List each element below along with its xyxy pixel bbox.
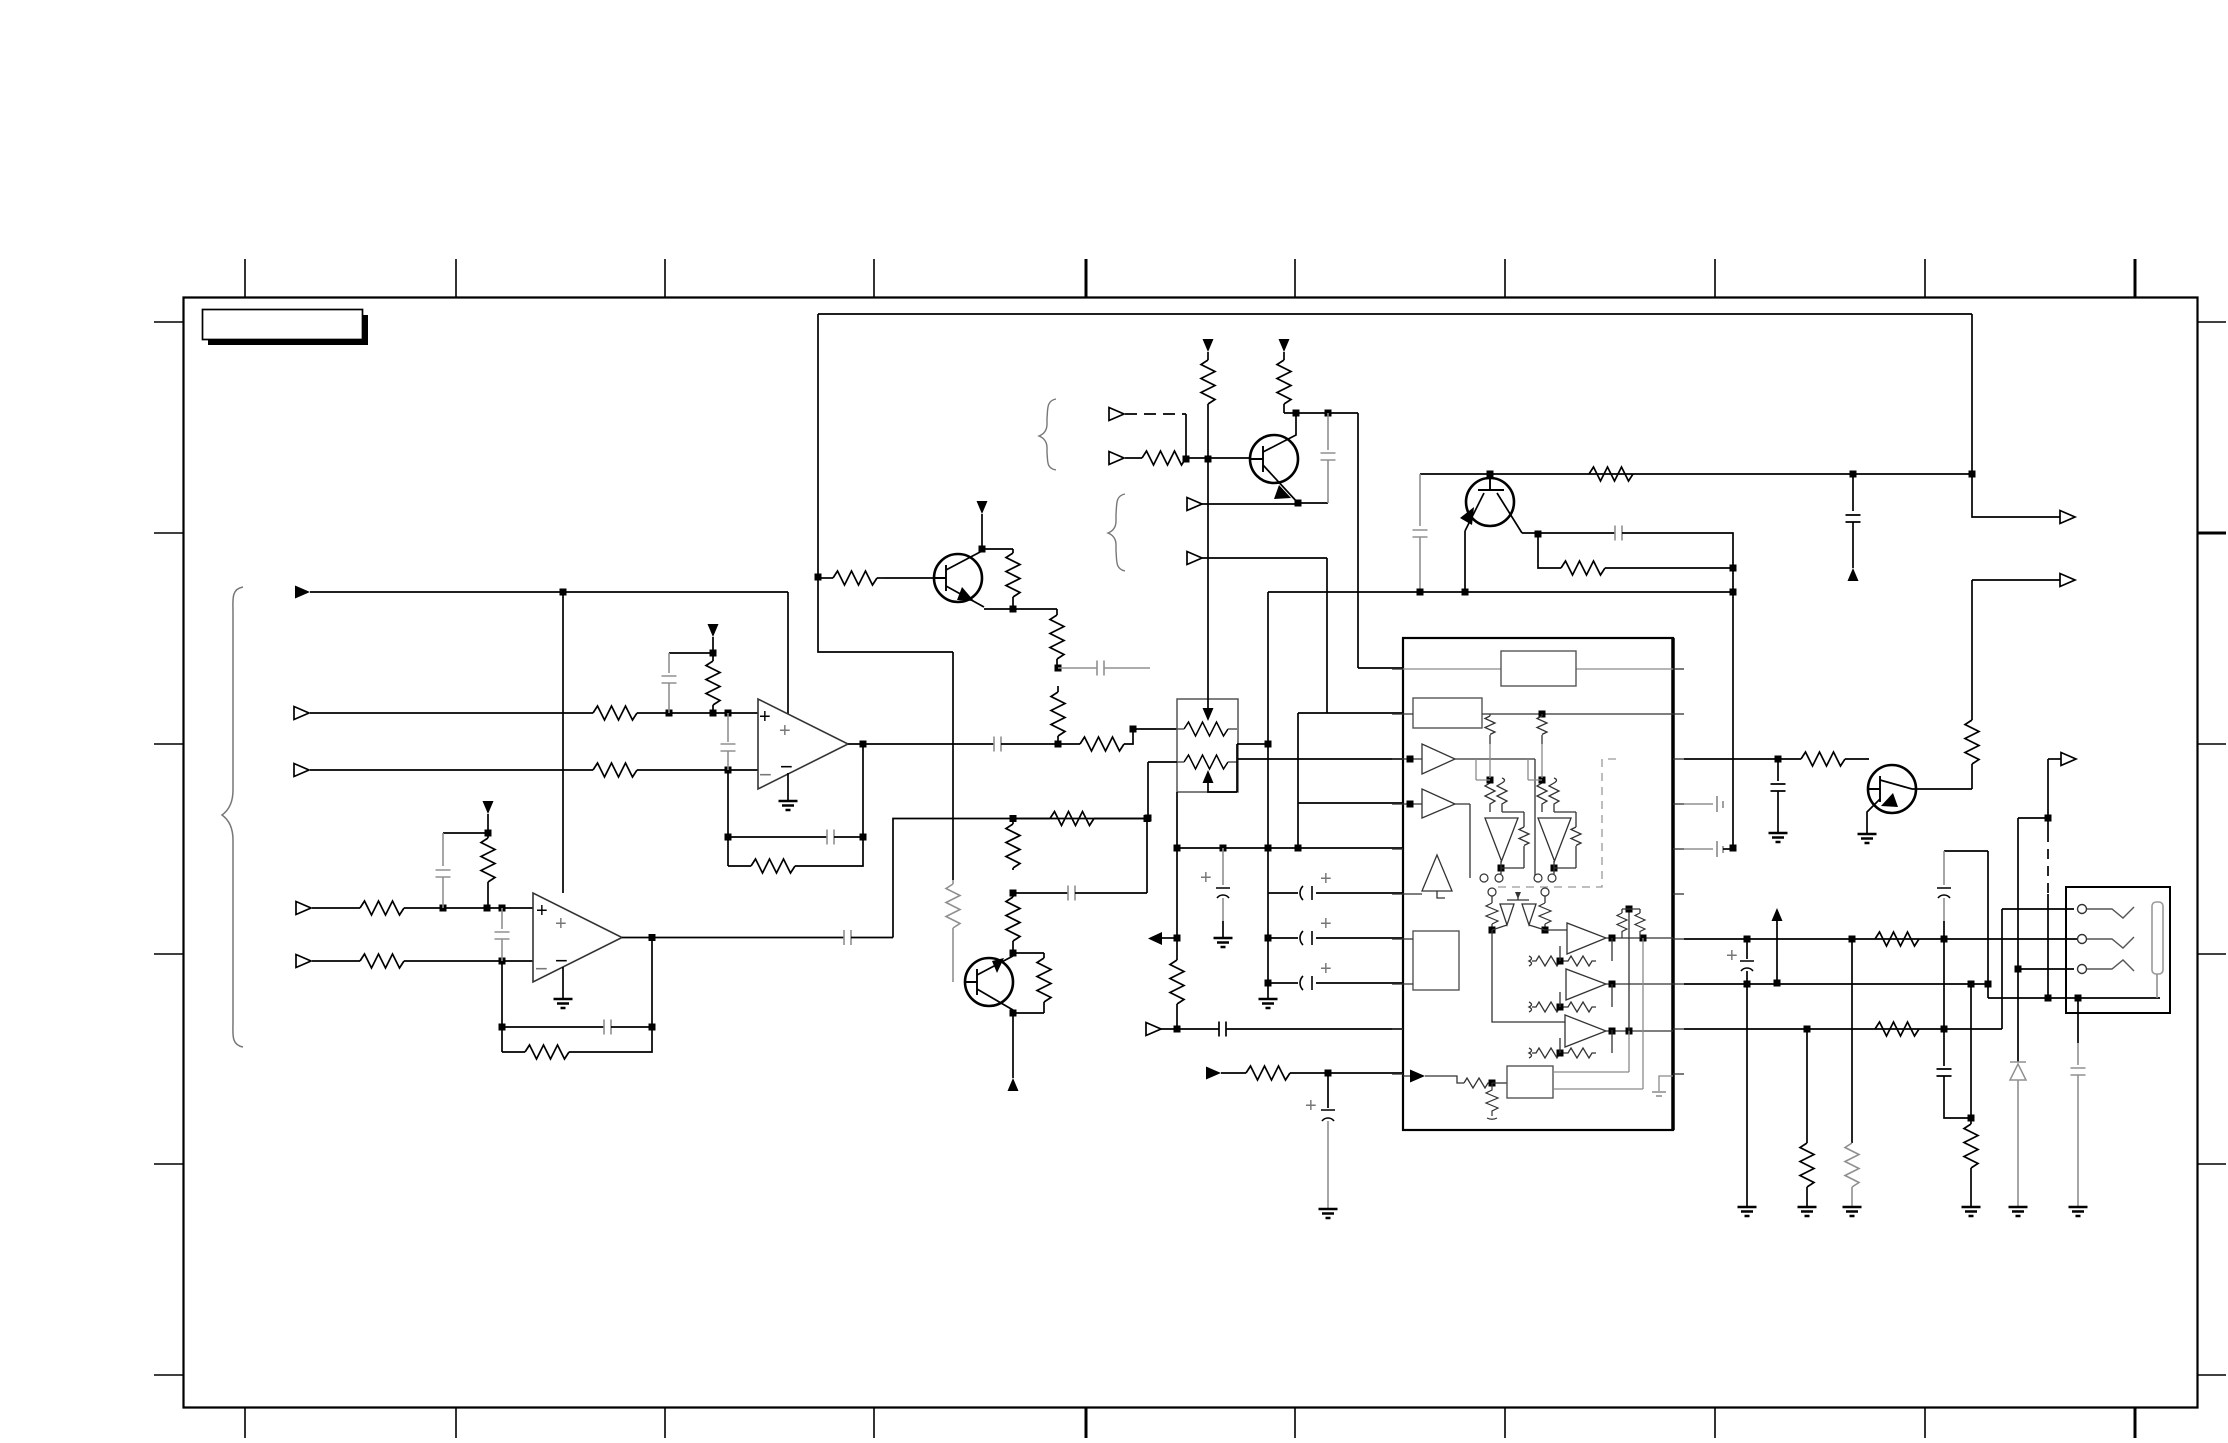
svg-text:+: + [779, 720, 791, 742]
svg-text:+: + [1320, 958, 1332, 980]
svg-text:+: + [1305, 1095, 1317, 1117]
svg-text:−: − [535, 956, 548, 981]
svg-text:+: + [555, 913, 567, 935]
svg-text:+: + [1726, 945, 1738, 967]
svg-text:−: − [780, 754, 793, 779]
svg-text:+: + [1320, 913, 1332, 935]
svg-text:+: + [1200, 867, 1212, 889]
svg-text:−: − [555, 948, 568, 973]
svg-text:−: − [759, 762, 772, 787]
svg-text:+: + [536, 900, 548, 922]
svg-text:+: + [1320, 868, 1332, 890]
svg-text:+: + [759, 706, 771, 728]
